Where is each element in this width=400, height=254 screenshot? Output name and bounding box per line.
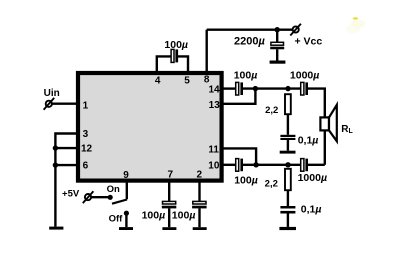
svg-text:1000µ: 1000µ — [290, 69, 319, 81]
wire pin 5 — [178, 56, 189, 73]
wire pin 11 feedback — [221, 148, 256, 164]
ground 2200µ — [270, 61, 286, 64]
ground pin 7 cap — [162, 227, 176, 230]
capacitor 2200µ — [270, 30, 284, 61]
ground left — [49, 227, 63, 230]
capacitor 100µ (pins 4-5 bootstrap) — [171, 49, 178, 62]
svg-text:7: 7 — [168, 170, 174, 181]
wire top rail to speaker — [308, 89, 325, 165]
svg-text:100µ: 100µ — [142, 210, 166, 222]
svg-text:6: 6 — [83, 161, 89, 172]
speaker RL — [320, 105, 336, 141]
capacitor 1000µ (bottom) — [301, 159, 308, 172]
node Off contact — [124, 211, 129, 216]
capacitor 0,1µ (lower) — [280, 206, 295, 227]
resistor 2,2 (upper) — [285, 94, 291, 114]
wire pin 2 — [198, 180, 200, 201]
wire pin 3 — [55, 134, 78, 227]
wire bottom rail — [243, 164, 300, 166]
wire top rail — [243, 87, 300, 89]
wire pin 4 — [157, 56, 171, 73]
ground pin 2 cap — [193, 227, 207, 230]
svg-text:2,2: 2,2 — [265, 178, 278, 189]
wire pin 8 to Vcc rail — [205, 30, 207, 73]
svg-text:Uin: Uin — [44, 88, 60, 99]
svg-text:On: On — [107, 184, 120, 195]
node On contact — [108, 195, 113, 200]
svg-text:0,1µ: 0,1µ — [298, 135, 319, 147]
svg-text:5: 5 — [184, 76, 190, 87]
svg-text:4: 4 — [155, 76, 161, 87]
node top junction A — [253, 86, 258, 91]
capacitor 100µ (pin 14) — [236, 82, 243, 95]
resistor 2,2 (lower) — [285, 169, 291, 190]
ground upper zobel — [280, 151, 296, 154]
svg-text:1000µ: 1000µ — [298, 172, 327, 184]
svg-text:9: 9 — [123, 170, 129, 181]
ground Off — [119, 227, 133, 230]
terminal Uin — [44, 98, 55, 110]
svg-text:1: 1 — [83, 100, 89, 111]
capacitor 100µ (pin 2) — [192, 201, 207, 227]
node junction pins 3-12 — [53, 145, 58, 150]
node junction Vcc — [275, 27, 280, 32]
wire Uin to pin 1 — [52, 102, 78, 104]
node top junction B — [285, 86, 290, 91]
capacitor 1000µ (top) — [301, 82, 308, 95]
svg-text:+ Vcc: + Vcc — [295, 35, 323, 47]
IC U1 body — [78, 73, 222, 181]
svg-text:3: 3 — [83, 129, 89, 140]
svg-text:13: 13 — [209, 100, 221, 111]
wire bottom rail to speaker — [308, 164, 325, 166]
wire pin 12 — [55, 147, 78, 149]
svg-text:12: 12 — [81, 144, 93, 155]
svg-text:14: 14 — [208, 85, 220, 96]
svg-text:Off: Off — [109, 213, 124, 224]
svg-text:100µ: 100µ — [234, 175, 258, 187]
switch blade On/Off — [112, 200, 127, 204]
svg-text:2,2: 2,2 — [265, 105, 278, 116]
wire pin 13 feedback — [221, 89, 255, 104]
yellow stain artifact — [346, 17, 365, 33]
node bottom junction A — [253, 162, 258, 167]
wire pin 10 output — [221, 164, 235, 166]
wire resistor to cap (lower zobel) — [287, 190, 289, 206]
node junction pins 3-6 — [53, 162, 58, 167]
svg-text:+5V: +5V — [62, 188, 80, 199]
svg-text:100µ: 100µ — [234, 69, 258, 81]
wire pin 14 output — [221, 87, 235, 89]
svg-text:100µ: 100µ — [172, 210, 196, 222]
capacitor 0,1µ (upper) — [280, 135, 295, 151]
wire pin 9 — [126, 180, 128, 199]
wire pin 7 — [168, 180, 170, 201]
node bottom junction B — [285, 162, 290, 167]
ground lower zobel — [279, 227, 296, 230]
wire Off contact to ground — [125, 213, 127, 227]
wire pin 6 — [55, 164, 78, 166]
svg-text:2: 2 — [197, 170, 203, 181]
capacitor 100µ (pin 7) — [162, 201, 177, 227]
terminal +Vcc — [290, 24, 301, 36]
svg-text:0,1µ: 0,1µ — [301, 204, 322, 216]
svg-text:100µ: 100µ — [164, 39, 188, 51]
svg-text:10: 10 — [208, 161, 220, 172]
terminal +5V — [83, 191, 94, 203]
capacitor 100µ (pin 10) — [236, 159, 243, 172]
wire resistor to cap (upper zobel) — [287, 114, 289, 135]
wire +5V to On contact — [91, 196, 110, 198]
wire Vcc rail — [207, 29, 293, 31]
svg-text:2200µ: 2200µ — [234, 35, 265, 47]
svg-text:11: 11 — [208, 144, 219, 155]
